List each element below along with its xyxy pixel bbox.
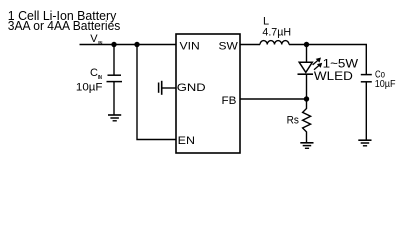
junction dot (SW output node): [304, 42, 309, 47]
inductor L: [260, 41, 289, 45]
ground (CO): [358, 140, 371, 146]
IC U1 body: [176, 34, 240, 153]
wire EN: [137, 45, 176, 140]
junction dot (CIN tap): [111, 42, 116, 47]
wire SW to inductor: [241, 44, 261, 46]
label CIN: [90, 67, 102, 81]
svg-text:10µF: 10µF: [375, 79, 396, 90]
svg-text:V: V: [90, 33, 98, 45]
wire FB: [241, 98, 307, 100]
ground (RS): [300, 143, 313, 149]
wire inductor to output corner: [289, 45, 366, 75]
svg-text:SW: SW: [219, 40, 239, 52]
svg-text:3AA or 4AA Batteries: 3AA or 4AA Batteries: [8, 18, 121, 33]
wire VIN rail: [80, 44, 176, 46]
svg-text:EN: EN: [178, 135, 195, 147]
junction dot (FB node): [304, 96, 309, 101]
svg-text:IN: IN: [98, 75, 102, 81]
note: input source description: [8, 8, 121, 33]
resistor RS: [303, 99, 311, 143]
svg-text:FB: FB: [222, 95, 237, 107]
capacitor CO: [361, 75, 372, 141]
svg-text:GND: GND: [177, 82, 206, 94]
svg-text:WLED: WLED: [314, 69, 353, 83]
wire LED cathode to FB node: [306, 74, 308, 99]
node VIN label: [90, 33, 102, 47]
LED D1 WLED: [298, 62, 314, 74]
junction dot (EN tap): [134, 42, 139, 47]
svg-text:10µF: 10µF: [76, 82, 103, 94]
svg-text:Rs: Rs: [287, 115, 300, 127]
capacitor CIN: [107, 45, 123, 116]
LED light emission arrows: [313, 58, 323, 70]
wire node to LED anode: [306, 45, 308, 63]
ground (IC GND pin stub): [159, 81, 176, 95]
svg-text:4.7µH: 4.7µH: [262, 26, 291, 38]
ground (CIN): [108, 115, 121, 121]
svg-text:VIN: VIN: [180, 40, 200, 52]
